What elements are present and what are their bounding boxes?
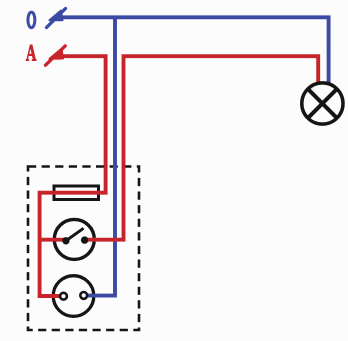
switch S body <box>54 219 94 259</box>
socket X body <box>53 276 94 317</box>
node O label <box>28 12 35 28</box>
wire blue neutral: O terminal to top-right corner down to lamp <box>56 17 329 83</box>
supply terminal arrow A <box>46 46 66 65</box>
junction box (dashed) <box>28 167 139 331</box>
svg-text:A: A <box>26 41 37 66</box>
node A label <box>26 41 37 66</box>
wire red: through fuse, left riser down to socket left pin <box>40 193 100 296</box>
fuse F outline <box>54 186 99 200</box>
supply terminal arrow O <box>47 9 66 28</box>
wire blue branch: junction at top down to socket right pin <box>84 17 115 295</box>
wire red live: A terminal down to fuse right end <box>56 56 106 193</box>
wire red branch: left riser to switch left contact <box>40 238 66 242</box>
lamp E <box>302 83 343 124</box>
wire red switched live: switch right contact up and right to lamp <box>85 56 319 240</box>
socket X pins <box>60 292 87 300</box>
switch S contacts and lever <box>62 228 88 244</box>
